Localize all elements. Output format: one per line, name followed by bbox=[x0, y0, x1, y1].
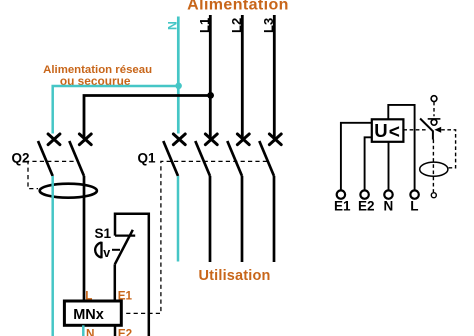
wire N below MNx bbox=[82, 325, 85, 336]
wire N utilisation bbox=[177, 176, 180, 262]
breaker Q1 blade pole1 bbox=[163, 141, 178, 176]
svg-text:v: v bbox=[103, 246, 110, 260]
svg-text:Q2: Q2 bbox=[12, 151, 30, 166]
dashed link top bbox=[433, 102, 435, 116]
wire E2 below MNx bbox=[114, 325, 117, 336]
trip arrow bbox=[434, 127, 441, 133]
terminal N circle bbox=[384, 190, 392, 198]
blade lower stub bbox=[432, 131, 434, 140]
svg-text:S1: S1 bbox=[95, 226, 112, 241]
breaker Q1 blade pole2 bbox=[195, 141, 210, 176]
terminal L circle bbox=[410, 190, 418, 198]
svg-text:L: L bbox=[410, 199, 418, 214]
mechanical link Q2 dashed bbox=[28, 161, 74, 188]
wire L3 utilisation bbox=[273, 176, 276, 262]
svg-text:U: U bbox=[374, 120, 387, 141]
breaker pole top terminal circle bbox=[431, 96, 437, 102]
svg-text:N: N bbox=[384, 199, 394, 214]
breaker Q1 blade pole4 bbox=[259, 141, 274, 176]
svg-text:Utilisation: Utilisation bbox=[199, 268, 271, 284]
wire L to relay top bbox=[388, 105, 414, 190]
svg-text:E1: E1 bbox=[334, 199, 351, 214]
svg-text:E2: E2 bbox=[358, 199, 375, 214]
switch S1 fixed contact tail bbox=[115, 235, 135, 237]
svg-text:Alimentation: Alimentation bbox=[187, 0, 289, 13]
wire L1 branch to Q2 bbox=[84, 96, 210, 139]
wire L3 vertical feed bbox=[273, 15, 276, 139]
mechanical link dash S1 bbox=[112, 249, 120, 251]
mechanical link Q1 dashed to MNx bbox=[124, 161, 267, 313]
wire L1 vertical feed bbox=[209, 15, 212, 139]
wire E1 to relay bbox=[341, 123, 372, 190]
wire L2 utilisation bbox=[241, 176, 244, 262]
contact X Q1 pole3 bbox=[237, 134, 249, 145]
contact X Q1 pole4 bbox=[269, 134, 281, 145]
wire L1 utilisation bbox=[209, 176, 212, 262]
svg-text:Q1: Q1 bbox=[138, 151, 157, 166]
svg-text:MNx: MNx bbox=[73, 307, 104, 323]
wire N below Q2 bbox=[51, 176, 54, 336]
relay box U& lt; bbox=[372, 119, 404, 142]
manual actuator symbol S1 bbox=[95, 242, 101, 258]
contact X Q1 pole2 bbox=[205, 134, 217, 145]
wire E2 to relay bbox=[365, 137, 372, 190]
terminal E2 circle bbox=[360, 190, 368, 198]
dashed link through toroid bbox=[432, 140, 434, 193]
breaker Q1 blade pole3 bbox=[227, 141, 242, 176]
breaker pole fixed contact circle bbox=[431, 119, 437, 125]
breaker pole bottom terminal circle bbox=[431, 193, 436, 198]
terminal E1 circle bbox=[337, 190, 345, 198]
switch S1 blade bbox=[115, 230, 133, 264]
wire S1 top loop bbox=[115, 214, 149, 336]
node junction on N bbox=[175, 83, 182, 90]
breaker Q2 blade pole2 bbox=[69, 141, 84, 176]
relay box MNx bbox=[64, 301, 121, 325]
svg-text:N: N bbox=[86, 327, 94, 336]
wire N branch to Q2 bbox=[53, 86, 179, 134]
wire L2 vertical feed bbox=[241, 15, 244, 139]
contact X Q2 pole1 bbox=[48, 134, 60, 145]
contact X Q2 pole2 bbox=[79, 134, 91, 145]
wire L below Q2 to MNx bbox=[83, 176, 86, 302]
svg-text:E2: E2 bbox=[118, 327, 133, 336]
wire N to relay bottom bbox=[388, 142, 390, 190]
RCD toroid Q2 ellipse bbox=[40, 184, 97, 198]
wire S1 to E1 bbox=[114, 264, 117, 302]
breaker pole blade bbox=[420, 119, 433, 132]
trip linkage dashed to toroid bbox=[441, 130, 455, 168]
svg-text:<: < bbox=[389, 122, 400, 143]
contact X Q1 pole1 bbox=[173, 134, 185, 145]
wire N vertical feed bbox=[177, 17, 180, 134]
node junction on L1 bbox=[207, 92, 214, 99]
toroid ellipse bbox=[420, 162, 448, 176]
trip linkage dashed from relay bbox=[403, 129, 427, 131]
breaker Q2 blade pole1 bbox=[38, 141, 53, 176]
fixed contact bar bbox=[428, 118, 441, 120]
